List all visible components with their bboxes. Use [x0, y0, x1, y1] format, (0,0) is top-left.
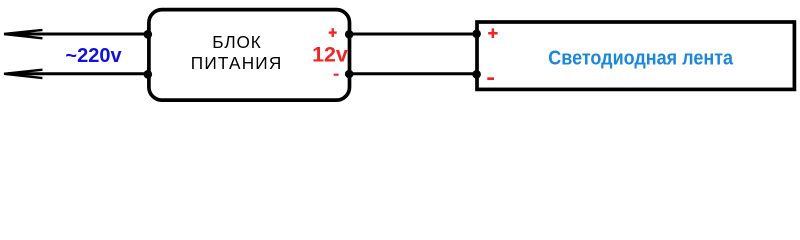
- wire: AC input bottom (N): [8, 72, 148, 75]
- wire: 12v top (+): [349, 33, 477, 36]
- power supply box U1: [149, 10, 350, 101]
- svg-text:12v: 12v: [312, 43, 348, 67]
- svg-text:Светодиодная лента: Светодиодная лента: [548, 47, 733, 69]
- node: LED strip left top: [472, 30, 481, 39]
- label - (12v output): drawn dash: [334, 74, 339, 76]
- node: power box right top: [345, 30, 354, 39]
- arrow: AC input top: [4, 30, 43, 38]
- node: power box left top: [144, 30, 153, 39]
- svg-text:~220v: ~220v: [65, 45, 122, 67]
- node: power box left bottom: [144, 70, 153, 79]
- svg-text:БЛОК: БЛОК: [212, 32, 261, 52]
- label + (LED strip input): drawn cross: [488, 28, 497, 38]
- arrow: AC input bottom: [4, 70, 43, 78]
- label - (LED strip input): drawn dash: [487, 77, 494, 80]
- label + (12v output): drawn cross: [329, 28, 337, 37]
- svg-text:ПИТАНИЯ: ПИТАНИЯ: [191, 53, 283, 73]
- LED strip box: [477, 22, 794, 89]
- node: LED strip left bottom: [472, 70, 481, 79]
- wire: 12v bottom (-): [349, 72, 477, 75]
- wire: AC input top (L): [8, 33, 148, 36]
- node: power box right bottom: [345, 70, 354, 79]
